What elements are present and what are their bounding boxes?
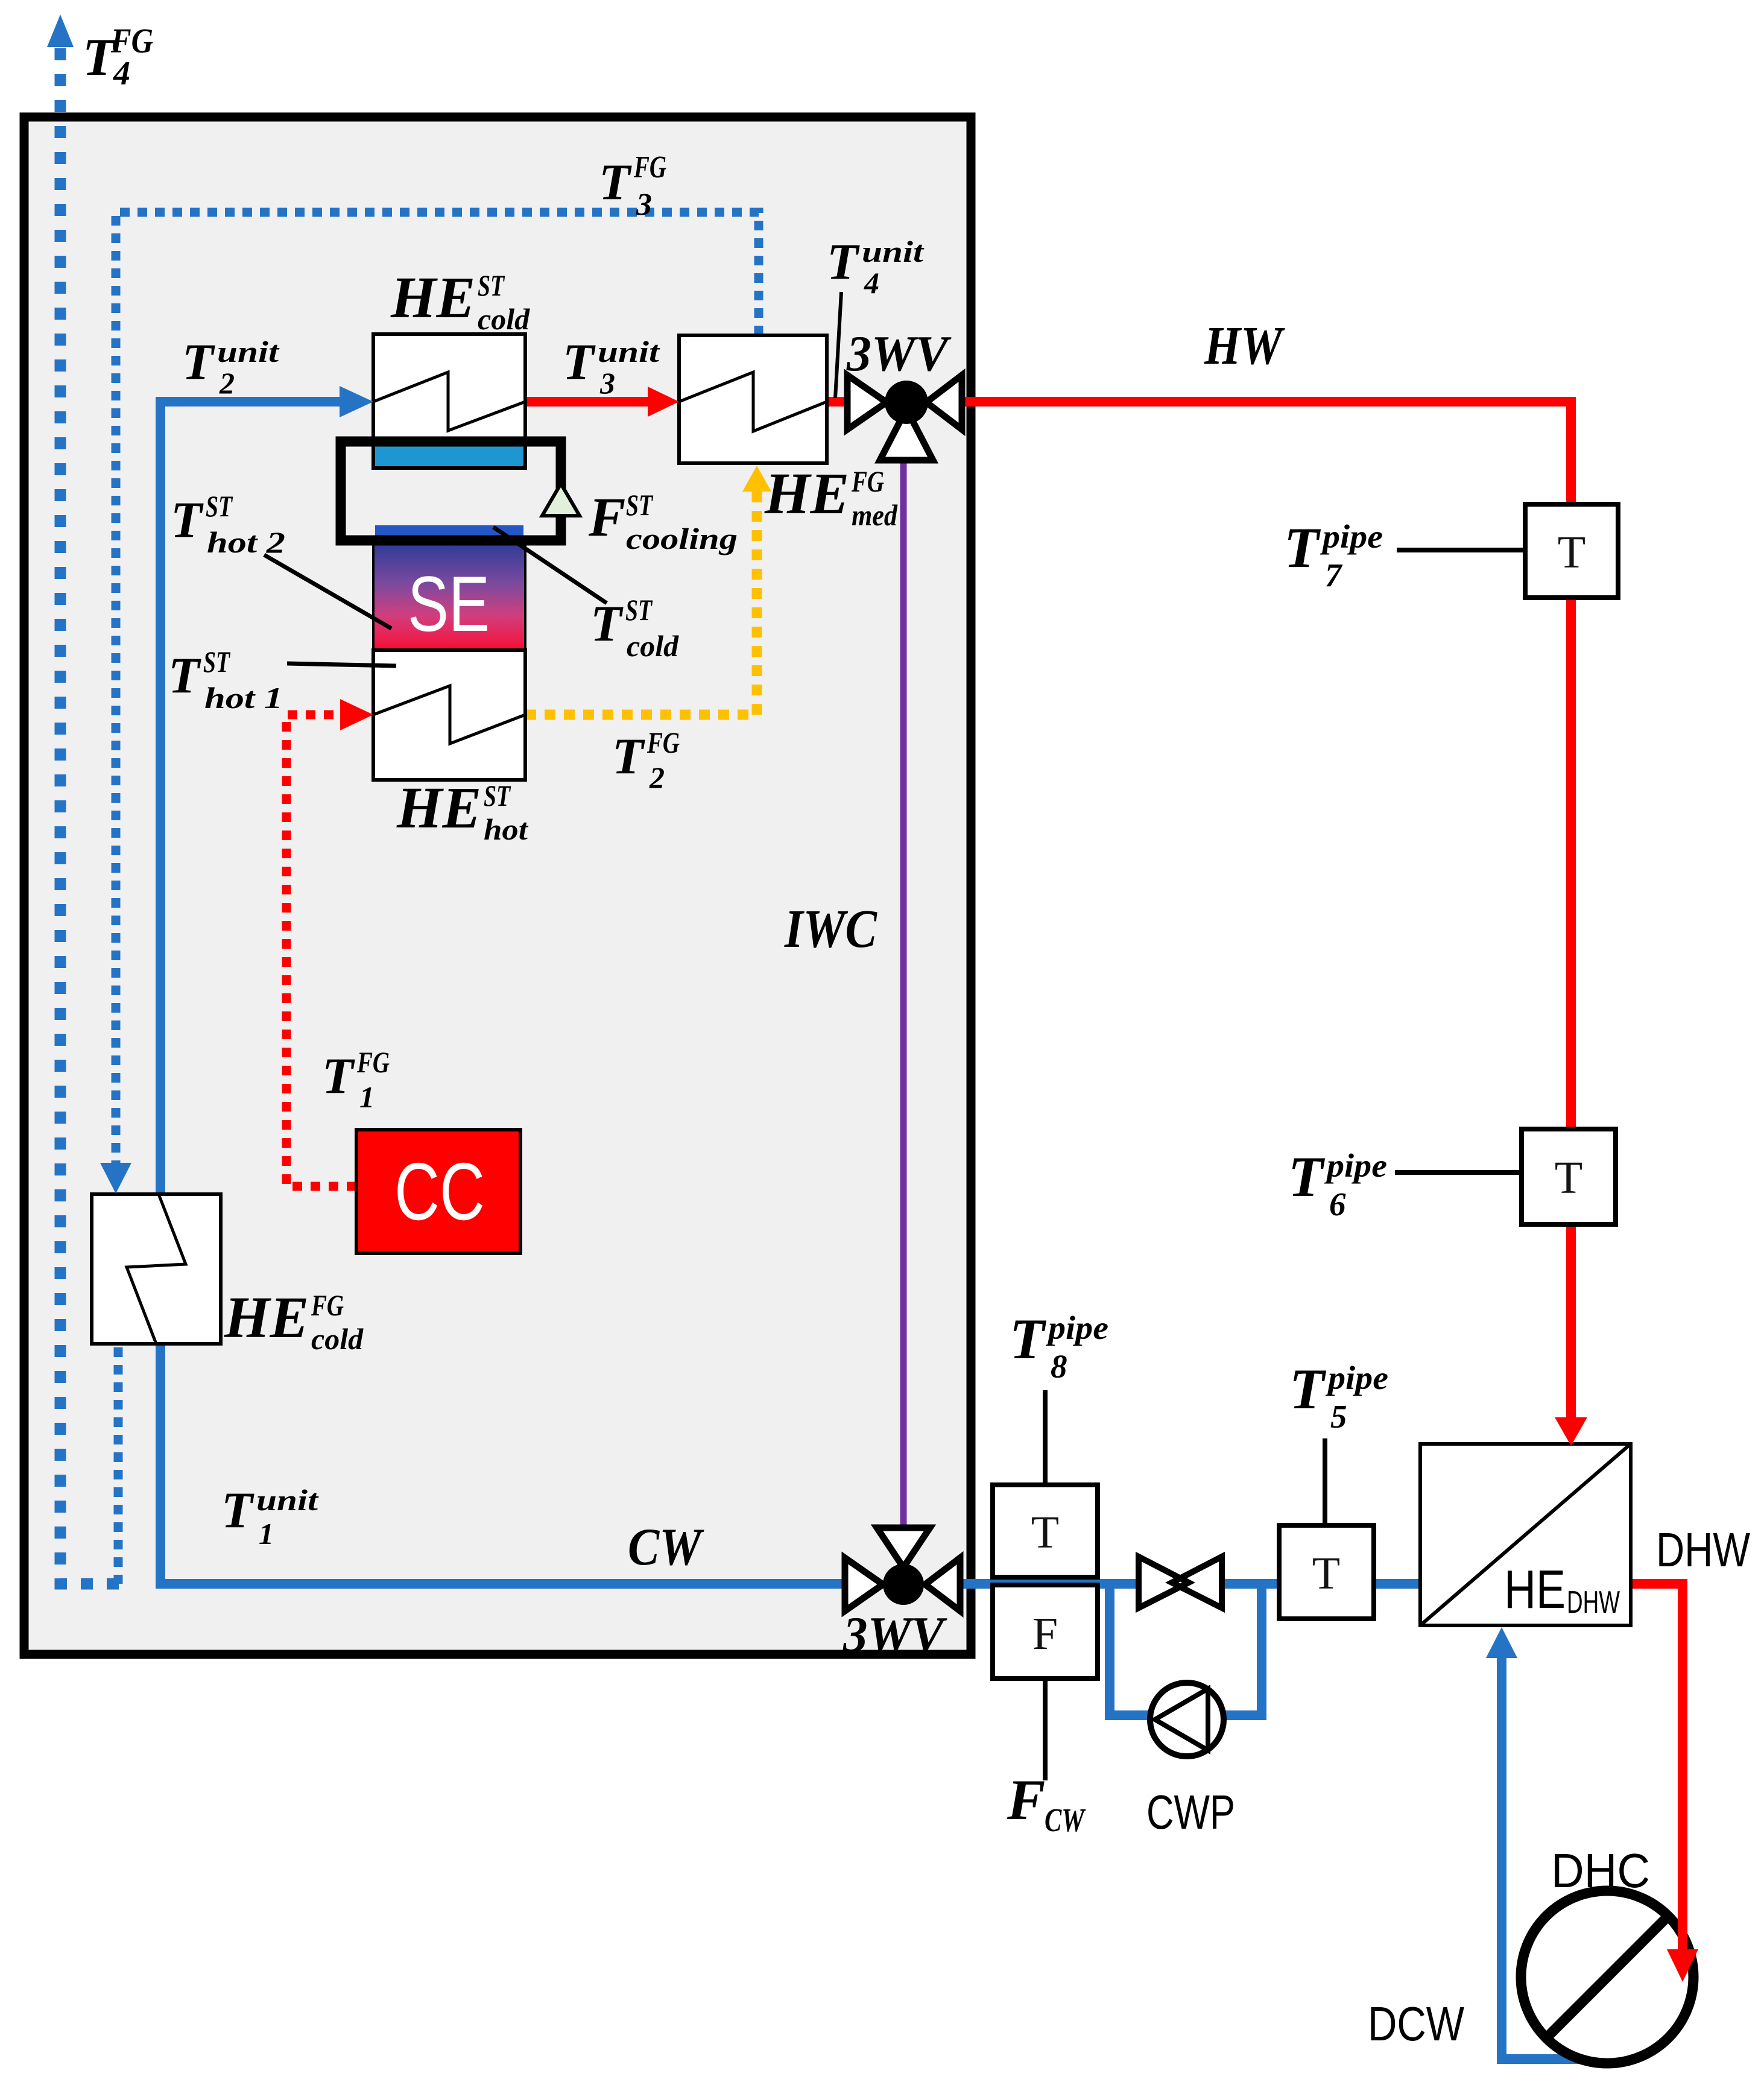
svg-text:T: T [1031, 1507, 1059, 1558]
svg-text:T: T [171, 492, 204, 548]
arrow blue into HE_cold_ST [340, 386, 373, 417]
three-way valve 3WV (top) [847, 375, 962, 460]
svg-text:DHW: DHW [1567, 1585, 1620, 1620]
wire red dotted T1FG: CC to HEhotST [286, 715, 356, 1186]
svg-text:HE: HE [390, 265, 475, 330]
wire red T3unit [525, 397, 650, 407]
svg-text:CW: CW [628, 1518, 704, 1577]
wire CWP bypass loop [1110, 1584, 1262, 1715]
svg-text:SE: SE [408, 560, 490, 648]
arrow red into DHC [1667, 1949, 1698, 1982]
svg-text:hot: hot [484, 812, 529, 846]
sensor box T (T6) [1522, 1129, 1616, 1224]
stirling engine SE gradient block [373, 543, 525, 650]
wire unit water blue solid: T1unit/T2unit and CW run [160, 402, 848, 1584]
svg-text:3: 3 [599, 366, 615, 400]
svg-text:T: T [168, 647, 201, 704]
svg-text:3WV: 3WV [846, 326, 952, 382]
svg-text:cooling: cooling [626, 522, 738, 555]
svg-text:2: 2 [219, 366, 235, 400]
cooling water jacket frame F_cooling loop [341, 441, 561, 540]
leader line T_hot2 [264, 555, 391, 628]
svg-text:cold: cold [311, 1322, 364, 1356]
label TcoldST [590, 593, 679, 663]
svg-text:FG: FG [633, 150, 666, 185]
label T3unit [563, 334, 661, 400]
leader line T8pipe [1043, 1390, 1048, 1485]
svg-text:4: 4 [864, 266, 879, 300]
svg-text:T: T [1558, 527, 1585, 578]
wire yellow dotted T2FG: HEhotST to HEmedFG [525, 491, 757, 715]
leader line T_cold [493, 527, 607, 603]
wire red HW line [959, 402, 1571, 1421]
heat exchanger HE_DHW [1420, 1444, 1631, 1625]
label T4unit [827, 233, 925, 300]
svg-text:7: 7 [1325, 557, 1343, 593]
label HEmedFG [764, 461, 898, 532]
svg-text:ST: ST [625, 593, 653, 627]
wire red stub HEmed to 3WV [827, 397, 848, 407]
svg-text:T: T [1555, 1153, 1582, 1203]
label T1FG [322, 1045, 390, 1114]
leader line T_hot1 [287, 663, 396, 666]
svg-text:T: T [1010, 1307, 1047, 1371]
label T7pipe [1284, 516, 1383, 593]
label T5pipe [1289, 1357, 1388, 1435]
flow triangle F_cooling [542, 484, 580, 516]
sensor box T (T7) [1525, 504, 1618, 598]
label ThotST2 [171, 489, 285, 559]
leader line T7pipe [1397, 548, 1525, 552]
svg-text:T: T [599, 154, 632, 210]
label T3FG [599, 150, 666, 222]
svg-text:F: F [588, 486, 625, 548]
svg-text:unit: unit [217, 335, 280, 369]
svg-text:pipe: pipe [1326, 1359, 1388, 1396]
label T4FG [83, 21, 153, 92]
svg-text:T: T [1284, 516, 1321, 580]
label HEhotST [396, 776, 529, 846]
svg-text:HE: HE [224, 1285, 309, 1350]
svg-text:CWP: CWP [1146, 1785, 1235, 1839]
svg-text:HW: HW [1204, 316, 1285, 376]
svg-text:cold: cold [478, 302, 530, 336]
label T1unit [221, 1482, 320, 1551]
svg-text:med: med [852, 498, 898, 532]
svg-text:T: T [1289, 1357, 1327, 1421]
svg-text:T: T [563, 334, 596, 390]
svg-text:unit: unit [862, 235, 925, 268]
label HEcoldFG [224, 1285, 364, 1356]
svg-text:4: 4 [113, 55, 130, 92]
arrow blue dashed into HE_cold_FG [100, 1163, 131, 1194]
svg-text:ST: ST [478, 268, 505, 302]
arrow red into HE_med_FG [648, 387, 679, 417]
leader line T4unit [835, 292, 841, 398]
label ThotST1 [168, 645, 283, 715]
svg-text:8: 8 [1051, 1348, 1067, 1385]
svg-text:FG: FG [851, 464, 884, 498]
wire blue DCW line [1502, 1656, 1616, 2059]
svg-text:T: T [590, 595, 624, 652]
svg-text:hot 2: hot 2 [207, 525, 285, 559]
sensor box F (FCW) [993, 1585, 1098, 1678]
svg-text:T: T [1288, 1145, 1326, 1209]
wire red DHW line [1625, 1584, 1683, 1949]
svg-text:unit: unit [598, 335, 661, 369]
pump CWP [1150, 1683, 1224, 1756]
svg-text:T: T [322, 1048, 355, 1104]
label T2FG [612, 726, 680, 794]
svg-text:T: T [1312, 1548, 1340, 1599]
svg-text:ST: ST [484, 779, 511, 812]
label T6pipe [1288, 1145, 1387, 1223]
label HEcoldST [390, 265, 530, 336]
svg-text:HE: HE [1504, 1560, 1566, 1620]
label T8pipe [1010, 1307, 1108, 1385]
svg-text:ST: ST [626, 488, 654, 522]
svg-text:ST: ST [206, 489, 233, 523]
svg-text:T: T [221, 1482, 254, 1539]
svg-text:FG: FG [646, 726, 680, 759]
wire CW continuation to HE_DHW [959, 1579, 1426, 1589]
label T2unit [182, 334, 280, 400]
svg-text:1: 1 [259, 1517, 274, 1551]
svg-text:unit: unit [256, 1483, 320, 1517]
leader line T5pipe [1323, 1438, 1327, 1525]
wire flue-gas dashed blue T3FG path: HEmed top to HEcoldFG [116, 212, 759, 1164]
arrow yellow into HE_med_FG bottom [742, 466, 771, 492]
svg-text:CW: CW [1045, 1802, 1086, 1838]
blue cold plate strip above SE [375, 525, 523, 543]
svg-text:FG: FG [356, 1045, 390, 1079]
svg-text:F: F [1007, 1768, 1045, 1832]
svg-text:FG: FG [311, 1288, 344, 1322]
label FCW [1007, 1768, 1086, 1838]
svg-text:3WV: 3WV [842, 1607, 947, 1663]
arrow blue into HE_DHW bottom [1486, 1627, 1517, 1658]
wire purple IWC line [900, 461, 907, 1527]
arrow red into HE_DHW top [1555, 1417, 1587, 1446]
svg-text:pipe: pipe [1046, 1309, 1108, 1346]
wire red DHW overlay over DHC circle [1678, 1894, 1687, 1951]
svg-text:1: 1 [359, 1080, 375, 1114]
leader line T6pipe [1395, 1170, 1522, 1175]
arrow blue up exhaust top [47, 14, 74, 47]
svg-text:T: T [612, 728, 645, 785]
sensor box T (T8) [993, 1485, 1098, 1577]
svg-text:5: 5 [1330, 1398, 1347, 1435]
wire flue-gas dashed blue below HEcoldFG [114, 1347, 123, 1584]
two-way valve [1139, 1557, 1222, 1608]
svg-text:DHW: DHW [1656, 1523, 1750, 1577]
svg-text:F: F [1032, 1609, 1058, 1659]
heat exchanger HE_med_FG [679, 335, 827, 463]
svg-text:2: 2 [649, 761, 665, 794]
wire flue-gas exhaust dashed blue (T4FG) [60, 43, 119, 1584]
combustion chamber CC [356, 1130, 520, 1253]
district heating consumer DHC circle [1521, 1891, 1693, 2063]
sensor box T (T5) [1279, 1525, 1374, 1619]
svg-text:pipe: pipe [1324, 1147, 1387, 1184]
svg-text:3: 3 [636, 188, 652, 222]
svg-text:T: T [182, 334, 215, 390]
arrow red dotted into HE_hot_ST [340, 699, 373, 730]
label FcoolingST [588, 486, 738, 555]
svg-text:HE: HE [764, 461, 849, 526]
svg-text:hot 1: hot 1 [204, 681, 283, 715]
svg-text:T: T [827, 233, 860, 290]
leader line FCW [1043, 1678, 1048, 1780]
heat exchanger HE_cold_ST [373, 334, 525, 468]
heat exchanger HE_hot_ST [373, 650, 525, 780]
svg-text:cold: cold [627, 629, 679, 663]
three-way valve 3WV (bottom) [845, 1528, 960, 1611]
svg-text:pipe: pipe [1320, 518, 1383, 555]
svg-text:HE: HE [396, 776, 481, 840]
svg-text:ST: ST [203, 645, 231, 679]
svg-text:6: 6 [1329, 1186, 1346, 1223]
svg-text:DCW: DCW [1368, 1997, 1464, 2051]
heat exchanger HE_cold_FG [92, 1194, 221, 1344]
svg-text:DHC: DHC [1551, 1844, 1650, 1897]
unit enclosure box [24, 117, 971, 1654]
svg-text:CC: CC [394, 1146, 485, 1237]
svg-text:IWC: IWC [784, 899, 877, 959]
